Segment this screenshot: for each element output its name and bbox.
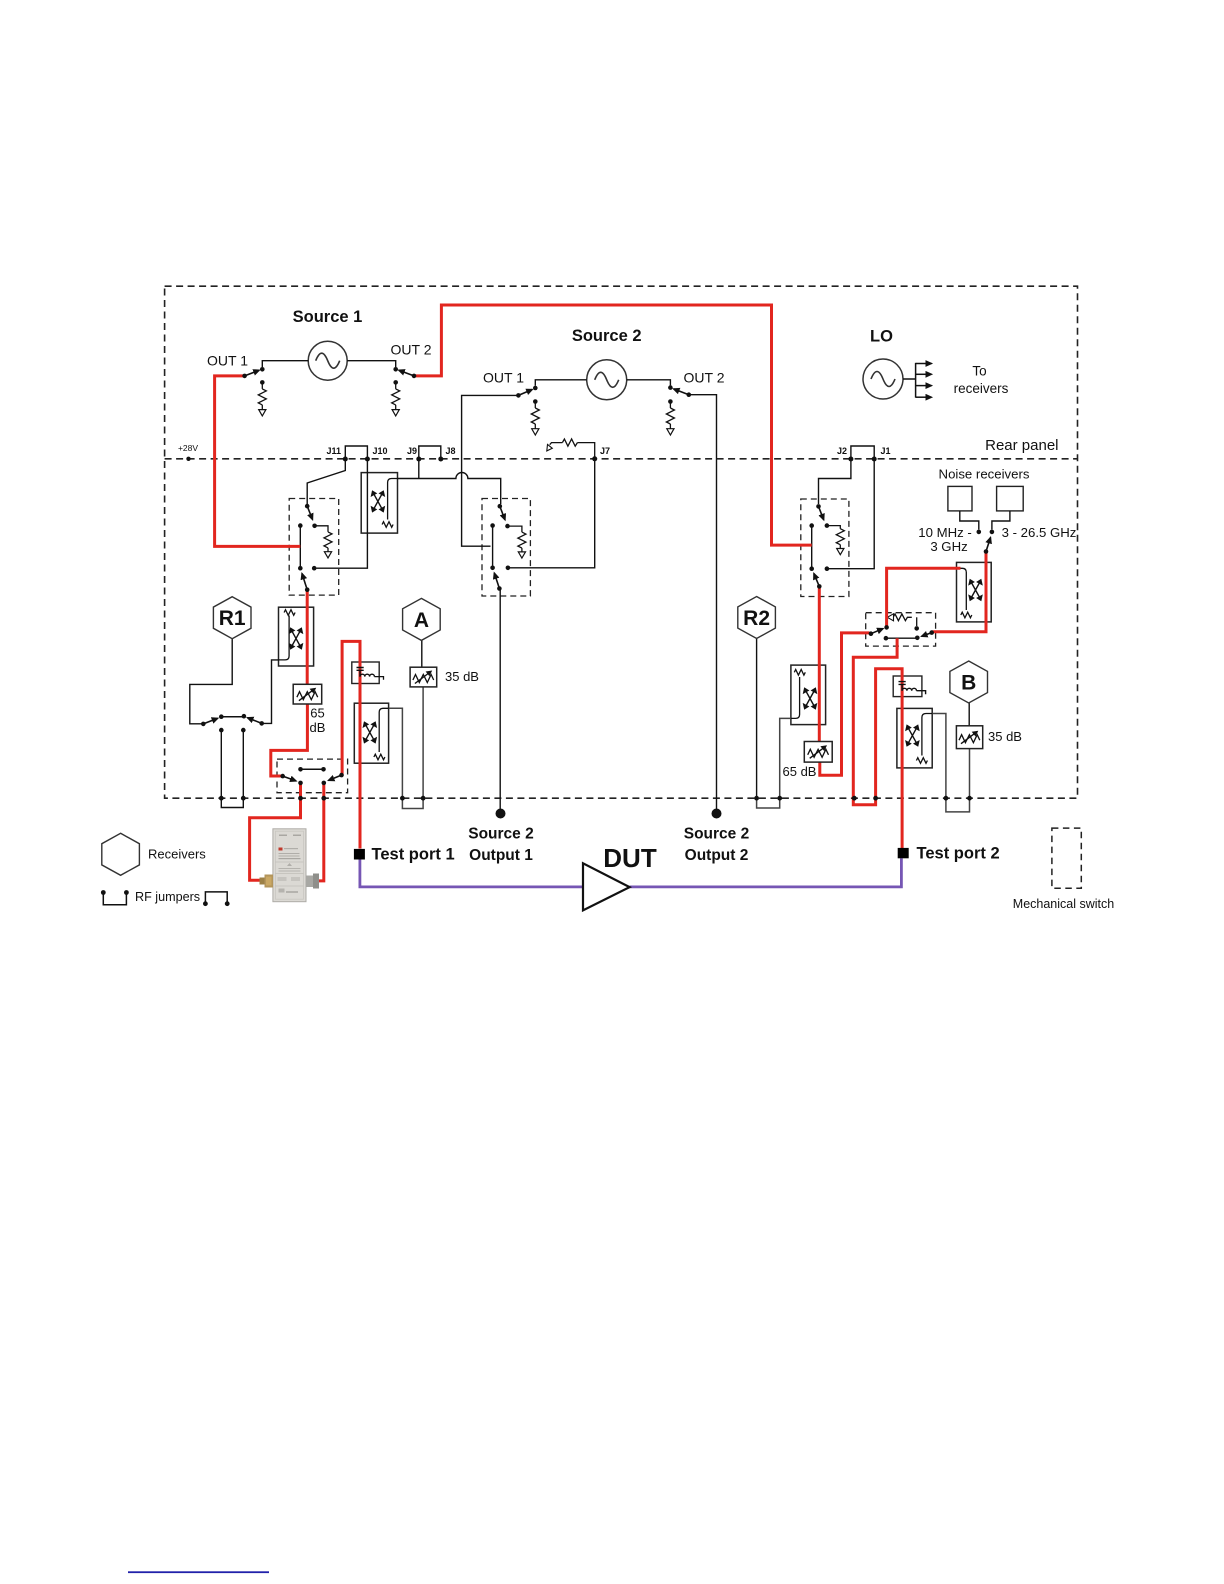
switch S1 termination resistor	[324, 532, 332, 558]
switch S3 common column	[811, 526, 813, 569]
svg-text:J9: J9	[407, 446, 417, 456]
wire source2 to OUT1 switch	[535, 380, 586, 386]
test port 1 connector square	[354, 849, 365, 860]
node J10	[365, 457, 370, 462]
svg-text:10 MHz -: 10 MHz -	[918, 525, 972, 540]
node +28V	[186, 457, 190, 461]
wire source1 to OUT1 switch	[262, 361, 308, 367]
wire source2 to OUT2 switch	[627, 380, 671, 386]
switch S1 contact dots	[298, 504, 317, 592]
red path source1 OUT1 to switch S1	[215, 376, 301, 547]
RF jumper loop J9-J8	[419, 446, 441, 459]
red path mech switch to external amplifier input	[250, 783, 301, 880]
node dots sources and switches	[242, 367, 691, 398]
switch lever source2 OUT1	[518, 390, 532, 396]
wire R1 hexagon to R1 switch	[190, 639, 232, 724]
noise switch termination resistor	[893, 614, 917, 626]
svg-text:Source 2: Source 2	[684, 826, 749, 843]
test port 1 mech switch contact dots	[280, 767, 343, 785]
coupler box A/test port 1	[354, 703, 388, 763]
svg-text:Rear panel: Rear panel	[985, 437, 1058, 454]
svg-text:Output 1: Output 1	[469, 847, 533, 864]
svg-text:Receivers: Receivers	[148, 847, 206, 862]
switch S2 termination resistor	[518, 532, 526, 558]
switch S1 common column	[299, 526, 301, 569]
svg-text:35 dB: 35 dB	[445, 669, 479, 684]
svg-text:A: A	[414, 609, 429, 632]
65 dB step attenuator box right	[804, 742, 832, 763]
A rear-panel jumper U loop	[402, 798, 423, 808]
switch S3 termination wire	[827, 526, 840, 529]
svg-text:Output 2: Output 2	[685, 847, 749, 864]
svg-text:receivers: receivers	[954, 381, 1009, 396]
noise switch lever left	[871, 629, 883, 634]
B rear-panel jumper U loop	[946, 798, 970, 812]
RF jumper loop J11-J10	[345, 446, 367, 459]
wire source1 to OUT2 switch	[347, 361, 396, 367]
switch S1 dashed box	[289, 499, 339, 596]
R1 switch contact dots	[201, 714, 264, 732]
svg-text:R1: R1	[219, 607, 246, 630]
svg-text:dB: dB	[310, 720, 326, 735]
wire J11 down to switch S1	[307, 459, 345, 504]
switch S3 dashed box	[801, 499, 849, 597]
coupled arm inside R2 coupler	[791, 677, 800, 718]
wire R2 hexagon to rear panel	[756, 639, 758, 799]
svg-text:3 - 26.5 GHz: 3 - 26.5 GHz	[1002, 525, 1077, 540]
svg-text:65: 65	[310, 706, 324, 721]
red path noise switch contact up into noise coupler	[887, 568, 961, 627]
R1 rear-panel jumper U loop	[221, 798, 243, 807]
test port 1 mech switch bar	[301, 768, 324, 770]
noise receiver select lever	[986, 538, 991, 552]
svg-text:J7: J7	[600, 446, 610, 456]
legend RF jumper icon down	[205, 892, 227, 904]
red path S1 through R1 coupler to 65 dB attenuator	[306, 590, 309, 685]
legend RF jumper icon up	[103, 893, 126, 905]
coupler symbol noise	[968, 579, 983, 601]
svg-text:RF jumpers: RF jumpers	[135, 890, 200, 904]
switch S3 top lever	[819, 506, 824, 519]
wire J8 to coupler with hop over source2 line	[398, 473, 501, 505]
switch S2 termination wire	[508, 526, 522, 532]
svg-text:DUT: DUT	[603, 843, 657, 873]
wire noise receiver 1 to contact	[960, 511, 979, 530]
wire A hexagon to 35 dB attenuator	[421, 640, 423, 667]
wire S2 down to Source 2 Output 1	[499, 590, 501, 810]
external amplifier photo	[260, 829, 320, 902]
svg-text:+28V: +28V	[178, 443, 198, 453]
svg-text:35 dB: 35 dB	[988, 729, 1022, 744]
termination source2 OUT1	[531, 399, 539, 435]
wire J7 down to switch S2	[508, 459, 595, 568]
coupler box B/test port 2	[897, 708, 932, 768]
wire B hexagon to 35 dB attenuator	[968, 703, 970, 726]
svg-text:LO: LO	[870, 328, 893, 346]
switch S2 common column	[492, 526, 494, 568]
wire J2 to switch S3	[819, 459, 851, 504]
node J1	[872, 457, 877, 462]
coupler symbol R1	[289, 627, 304, 649]
wire J1 to switch S3	[829, 459, 874, 569]
hexagon A	[403, 598, 441, 640]
hexagon R1	[213, 597, 251, 639]
svg-text:OUT 1: OUT 1	[207, 353, 248, 369]
node Source 2 Output 1	[496, 809, 506, 819]
test port 1 mech switch lever right	[329, 775, 342, 780]
switch S2 top lever	[500, 506, 505, 520]
wire R1 switch to R1 coupler arm	[262, 660, 279, 724]
switch lever source1 OUT1	[245, 370, 260, 376]
LO fanout to receivers	[903, 363, 932, 398]
termination source1 OUT1	[258, 380, 266, 416]
R1 switch lever right	[248, 718, 262, 724]
switch S3 contact dots	[809, 504, 829, 589]
svg-text:Test port 2: Test port 2	[917, 845, 1000, 863]
legend mechanical switch dashed box	[1052, 828, 1081, 888]
bias tee 1 box	[352, 662, 379, 684]
bias tee 1 capacitor and inductor	[357, 668, 375, 677]
red path external amplifier output to mech switch	[319, 783, 324, 881]
wire R1 jumper drop right	[242, 730, 244, 798]
coupler symbol J10	[371, 490, 386, 512]
bias tee 2 box	[893, 676, 922, 697]
switch S3 termination resistor	[836, 529, 844, 555]
source 2 oscillator circle	[587, 360, 627, 400]
test port 2 connector square	[898, 848, 909, 858]
svg-text:B: B	[961, 672, 976, 695]
svg-text:Mechanical switch: Mechanical switch	[1013, 897, 1114, 911]
svg-text:OUT 2: OUT 2	[391, 342, 432, 358]
purple cable DUT to test port 2	[630, 858, 902, 887]
noise receiver box 10MHz-3GHz	[948, 486, 972, 511]
coupler box R2/test port 2	[791, 665, 826, 725]
svg-text:J8: J8	[446, 446, 456, 456]
svg-text:To: To	[972, 364, 986, 379]
red path S3 through R2 coupler to 65 dB attenuator	[818, 586, 821, 741]
node J2	[848, 457, 853, 462]
purple cable test port 1 to DUT	[360, 860, 583, 887]
red path noise switch down through bias tee 2 and B coupler to test port 2	[853, 638, 902, 848]
switch lever source2 OUT2	[674, 389, 689, 395]
coupler symbol B	[905, 724, 920, 746]
node J7	[592, 456, 597, 461]
switch S2 contact dots	[490, 504, 510, 591]
coupled arm inside J10 coupler	[388, 479, 398, 520]
test port 1 mech switch lever left	[283, 776, 296, 781]
wire J9 stub	[418, 459, 420, 479]
wire 35 dB attenuator to rear panel	[422, 687, 424, 798]
legend receivers hexagon	[102, 833, 140, 875]
switch S3 bottom lever	[814, 574, 819, 587]
wire rear panel up to R2 coupler arm	[780, 718, 791, 798]
coupler symbol A	[363, 721, 378, 743]
node J11	[343, 457, 348, 462]
switch S2 dashed box	[482, 499, 530, 597]
wire R1 jumper drop left	[220, 730, 222, 798]
coupled arm inside A coupler	[379, 708, 388, 752]
svg-text:R2: R2	[743, 607, 770, 630]
red path noise coupler main to noise switch right lever	[933, 552, 987, 632]
source 1 oscillator circle	[308, 341, 347, 380]
outer instrument dashed border	[165, 286, 1078, 798]
coupled arm inside noise coupler	[960, 568, 967, 610]
wire source2 OUT1 down to switch S2	[462, 395, 519, 546]
hexagon B	[950, 661, 988, 703]
svg-text:J10: J10	[373, 446, 388, 456]
wire rear panel up to A coupler arm	[389, 708, 403, 798]
node J8	[438, 457, 443, 462]
noise tuner switch dashed box	[866, 613, 936, 646]
coupler box noise receivers	[957, 562, 992, 622]
switch S1 bottom lever	[302, 574, 307, 590]
svg-text:Source 2: Source 2	[468, 826, 533, 843]
resistor and ground at J7	[550, 439, 595, 459]
svg-text:3 GHz: 3 GHz	[930, 539, 967, 554]
65 dB step attenuator box left	[293, 684, 322, 704]
wire J10 through coupler to switch S1	[316, 459, 367, 568]
svg-text:OUT 2: OUT 2	[684, 370, 725, 386]
noise switch bottom link wire	[886, 637, 917, 639]
noise receiver box 3-26.5GHz	[997, 486, 1024, 511]
noise switch contact dots	[869, 625, 934, 640]
wire source2 OUT2 down to Source 2 Output 2	[689, 395, 717, 809]
R2 rear-panel jumper U loop	[757, 798, 780, 808]
test port 1 mechanical switch dashed box	[277, 759, 348, 793]
coupled arm inside R1 coupler	[279, 616, 290, 660]
rear panel dashed line	[165, 458, 1078, 460]
switch S1 termination wire	[315, 526, 328, 532]
coupled arm inside B coupler	[922, 714, 932, 756]
35 dB attenuator box B	[956, 726, 982, 749]
termination source1 OUT2	[392, 380, 400, 416]
svg-text:Source 1: Source 1	[293, 308, 363, 326]
node J9	[416, 457, 421, 462]
R1 switch bar	[221, 716, 244, 718]
red path 65 dB attenuator to test port 1 mech switch	[271, 704, 308, 776]
switch lever source1 OUT2	[399, 370, 414, 376]
termination source2 OUT2	[666, 399, 674, 435]
svg-text:65 dB: 65 dB	[783, 764, 817, 779]
red path source1 OUT2 over top to switch S3	[414, 305, 812, 545]
svg-text:Noise receivers: Noise receivers	[939, 467, 1030, 482]
DUT amplifier triangle	[583, 863, 630, 910]
bias tee 2 capacitor and inductor	[899, 682, 926, 695]
svg-text:Test port 1: Test port 1	[372, 846, 455, 864]
coupler symbol R2	[803, 687, 818, 709]
switch S2 bottom lever	[494, 573, 499, 589]
LO oscillator circle	[863, 359, 903, 399]
switch S1 top lever	[307, 506, 312, 519]
wire rear panel up to B coupler arm	[932, 714, 946, 799]
hexagon R2	[738, 597, 776, 639]
svg-text:Source 2: Source 2	[572, 327, 642, 345]
svg-text:OUT 1: OUT 1	[483, 370, 524, 386]
red path mech switch through bias tee 1 and A coupler to test port 1	[342, 641, 360, 848]
red path 65 dB attenuator up to noise switch	[820, 633, 870, 775]
RF jumper loop J2-J1	[851, 446, 874, 459]
svg-text:J11: J11	[326, 446, 341, 456]
wire 35 dB attenuator to rear panel	[969, 749, 971, 799]
svg-text:J2: J2	[837, 446, 847, 456]
noise switch lever right	[922, 633, 932, 637]
footnote rule	[128, 1571, 269, 1573]
wire noise receiver 2 to contact	[992, 511, 1010, 530]
bias tee 1 DC stub	[374, 677, 383, 680]
coupler box J10 path	[361, 473, 397, 533]
R1 switch lever left	[203, 718, 217, 724]
rear panel bottom jumper dots	[219, 796, 972, 801]
node Source 2 Output 2	[712, 809, 722, 819]
svg-text:J1: J1	[881, 446, 891, 456]
coupler box R1/test port 1	[279, 607, 314, 666]
35 dB attenuator box A	[410, 667, 437, 687]
noise receiver contact dots	[977, 530, 995, 554]
